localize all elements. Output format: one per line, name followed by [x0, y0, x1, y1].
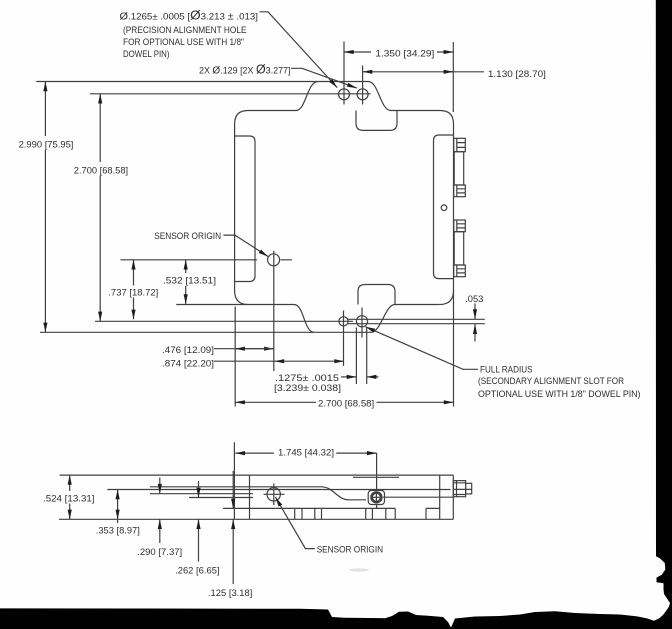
- left edge: [234, 124, 236, 291]
- bottom-left corner: [235, 291, 248, 305]
- dim 1.745 line: [235, 452, 274, 454]
- svg-text:2.700 [68.58]: 2.700 [68.58]: [318, 398, 374, 408]
- dim 1.130 line: [363, 71, 484, 73]
- svg-text:FOR OPTIONAL USE WITH 1/8": FOR OPTIONAL USE WITH 1/8": [123, 37, 244, 47]
- dim .353 lower tail: [117, 519, 119, 523]
- sensor origin circle: [268, 254, 280, 266]
- strip divider d: [321, 508, 323, 519]
- hole horizontal centerline / 2.700 top extension: [90, 93, 371, 95]
- svg-text:SENSOR ORIGIN: SENSOR ORIGIN: [154, 231, 221, 241]
- strip divider a: [294, 508, 296, 519]
- strip divider e: [365, 508, 367, 519]
- side right nub outer: [453, 481, 465, 497]
- svg-text:.874 [22.20]: .874 [22.20]: [162, 358, 214, 368]
- bottom notch recess: [358, 285, 395, 305]
- jackscrew lower tick: [376, 505, 378, 510]
- slot centerline extension: [95, 320, 353, 322]
- internal double line upper: [150, 486, 322, 488]
- sensor origin horizontal centerline: [121, 259, 293, 261]
- right edge lower extension: [453, 291, 455, 407]
- svg-text:(PRECISION ALIGNMENT HOLE: (PRECISION ALIGNMENT HOLE: [123, 25, 247, 35]
- internal line .290 level: [150, 493, 253, 495]
- svg-text:DOWEL PIN): DOWEL PIN): [123, 49, 170, 59]
- svg-text:.290 [7.37]: .290 [7.37]: [137, 547, 182, 557]
- leader sensor origin (top view): [223, 235, 268, 256]
- dim .290 lower arrow: [159, 519, 161, 543]
- body bottom extension (.532): [176, 304, 248, 306]
- side right nub tip centerline: [453, 488, 471, 490]
- top notch recess: [356, 111, 397, 131]
- side top edge: [60, 474, 454, 476]
- svg-text:FULL RADIUS: FULL RADIUS: [480, 365, 533, 375]
- side vertical line B: [249, 475, 251, 519]
- faint smudge: [349, 568, 369, 571]
- sensor origin vertical extension: [273, 251, 275, 371]
- bottom extension line (2.990): [40, 331, 314, 333]
- slot width extension right: [366, 328, 368, 385]
- dim .262 upper arrow: [198, 481, 200, 498]
- svg-text:.125 [3.18]: .125 [3.18]: [208, 588, 253, 598]
- dim 2.700 vertical line: [99, 94, 101, 162]
- svg-text:SENSOR ORIGIN: SENSOR ORIGIN: [317, 544, 383, 554]
- bottom circle vertical centerline: [343, 311, 345, 367]
- alignment slot circle: [356, 316, 367, 327]
- dim .737 line: [133, 260, 135, 286]
- side bottom edge: [59, 518, 453, 520]
- body bottom edge left segment: [248, 304, 294, 306]
- dim .353 line: [117, 490, 119, 520]
- internal step ramp: [322, 487, 366, 500]
- side sensor origin circle: [267, 488, 280, 501]
- dim .874 line: [214, 360, 275, 362]
- strip divider h: [394, 508, 396, 519]
- svg-text:(SECONDARY ALIGNMENT SLOT FOR: (SECONDARY ALIGNMENT SLOT FOR: [478, 376, 624, 386]
- left edge lower extension: [234, 307, 236, 407]
- screw block 4: [454, 265, 466, 277]
- screw block 1: [454, 138, 466, 151]
- screw block 3: [454, 220, 466, 232]
- svg-text:2.700 [68.58]: 2.700 [68.58]: [74, 165, 128, 175]
- top-left corner: [235, 111, 248, 125]
- second top hole: [357, 89, 368, 100]
- top surface slot sliver: [353, 476, 399, 478]
- body bottom edge right segment: [395, 304, 440, 306]
- precision hole vertical centerline: [343, 42, 345, 105]
- side origin vertical centerline: [273, 484, 275, 506]
- svg-text:.1275± .0015: .1275± .0015: [275, 373, 339, 383]
- side vertical line C: [439, 475, 441, 519]
- jackscrew vertical extension (1.745): [376, 453, 378, 490]
- bottom trapezoid boss: [294, 305, 395, 333]
- strip divider i: [425, 508, 427, 519]
- dim .290 upper arrow: [159, 478, 161, 494]
- screw block 2: [454, 185, 466, 197]
- dim .053 arrows: [474, 304, 476, 319]
- svg-text:OPTIONAL USE WITH 1/8" DOWEL: OPTIONAL USE WITH 1/8" DOWEL PIN): [478, 389, 641, 399]
- second hole vertical centerline: [362, 66, 364, 105]
- dim 2.700 horizontal line: [235, 401, 316, 403]
- svg-text:1.745 [44.32]: 1.745 [44.32]: [278, 448, 334, 458]
- svg-text:.476 [12.09]: .476 [12.09]: [162, 345, 214, 355]
- slot width extension left: [355, 328, 357, 385]
- dim 2.990 line: [44, 82, 46, 137]
- right connector plate: [434, 135, 454, 279]
- right edge upper extension: [452, 42, 454, 112]
- side origin horizontal centerline: [264, 493, 285, 495]
- svg-text:1.350 [34.29]: 1.350 [34.29]: [375, 49, 434, 59]
- left inner pocket: [235, 136, 255, 282]
- internal line .262 level: [189, 497, 253, 499]
- top trapezoid boss: [296, 82, 391, 111]
- screw centerline right: [383, 496, 453, 498]
- connector body 1: [454, 152, 464, 185]
- slot lower edge line: [347, 323, 485, 325]
- side jackscrew symbol: [368, 490, 384, 504]
- bottom-right corner: [440, 291, 454, 305]
- connector body 2: [454, 232, 464, 265]
- leader sensor origin (side view): [276, 497, 315, 548]
- internal line .353 level: [107, 489, 450, 491]
- slot upper edge line: [347, 318, 485, 320]
- svg-text:.524 [13.31]: .524 [13.31]: [43, 493, 95, 503]
- strip divider c: [314, 508, 316, 519]
- dim .524 line: [69, 475, 71, 491]
- svg-text:1.130 [28.70]: 1.130 [28.70]: [488, 69, 546, 79]
- side right nub lines: [453, 481, 465, 497]
- precision alignment hole: [339, 89, 350, 100]
- plate small hole: [441, 205, 447, 211]
- svg-text:.532 [13.51]: .532 [13.51]: [163, 276, 216, 286]
- side right edge: [452, 475, 454, 519]
- leader 2X holes: [291, 68, 357, 88]
- dim .125 lower arrow: [232, 519, 234, 584]
- leader precision hole: [260, 12, 338, 88]
- dim .262 lower arrow: [198, 519, 200, 561]
- dim .532 line: [185, 260, 187, 273]
- dim .1275 arrows: [341, 376, 356, 378]
- strip divider g: [385, 508, 387, 519]
- top extension line / boss top (2.990): [36, 81, 318, 83]
- svg-text:.353 [8.97]: .353 [8.97]: [96, 526, 140, 536]
- top-right corner: [440, 111, 454, 125]
- dim .125 upper arrow: [232, 471, 234, 508]
- slot vertical centerline: [361, 308, 363, 338]
- svg-text:.737 [18.72]: .737 [18.72]: [108, 287, 158, 297]
- dim .476 line: [214, 348, 274, 350]
- body outline top edge left segment: [248, 110, 296, 112]
- body outline top edge right segment: [391, 110, 440, 112]
- strip divider f: [371, 508, 373, 519]
- right edge: [453, 124, 455, 291]
- leader full radius: [366, 327, 479, 370]
- svg-text:.262 [6.65]: .262 [6.65]: [175, 566, 220, 576]
- svg-text:.053: .053: [465, 294, 483, 304]
- dim 1.350 line: [344, 51, 371, 53]
- internal line .125 level / strip top: [223, 507, 440, 509]
- side vertical line A / 1.745 extension: [233, 442, 235, 519]
- svg-text:[3.239± 0.038]: [3.239± 0.038]: [274, 383, 341, 393]
- bottom alignment circle: [339, 317, 348, 326]
- strip divider b: [301, 508, 303, 519]
- svg-text:2.990 [75.95]: 2.990 [75.95]: [19, 139, 74, 149]
- side right nub tip: [466, 483, 472, 494]
